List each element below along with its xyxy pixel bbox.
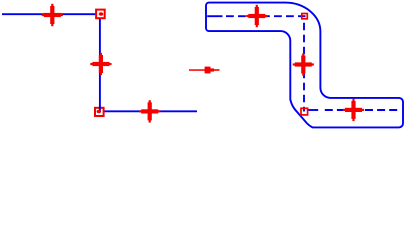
vertex marker square (bottom corner): [95, 108, 104, 116]
wire: original polyline bottom horizontal segment: [100, 110, 197, 112]
centerline dash under cross: [350, 109, 358, 111]
midpoint cross on tube top segment: [246, 5, 267, 27]
midpoint cross on top segment: [42, 4, 63, 26]
midpoint cross on vertical segment: [90, 53, 111, 75]
centerline dashes: bottom horizontal first long dash: [308, 109, 318, 111]
vertex square on tube top corner: [302, 14, 308, 19]
wire: original polyline top horizontal segment: [2, 13, 100, 15]
arrow shaft: [189, 69, 206, 71]
midpoint cross on bottom segment: [139, 100, 160, 122]
wide polyline outline (tube): [206, 3, 403, 128]
arrow head stepped blocks: [205, 67, 211, 74]
wire: original polyline vertical segment: [99, 14, 101, 111]
vertex dot inside top square: [99, 12, 104, 16]
centerline dashes: top horizontal first long dash: [207, 15, 222, 17]
vertex marker square (top corner): [96, 10, 105, 19]
vertex dot inside bottom square: [97, 110, 102, 114]
centerline dashes: bottom horizontal right of cross: [365, 109, 400, 111]
centerline dashes: top horizontal: [226, 15, 306, 17]
centerline dashes: bottom horizontal left of cross: [325, 109, 345, 111]
midpoint cross on tube vertical segment: [293, 53, 314, 75]
wire stub entering bottom square: [99, 106, 101, 111]
centerline dashes: vertical: [303, 23, 305, 112]
vertex square on tube bottom corner: [301, 108, 308, 115]
midpoint cross on tube bottom segment: [343, 99, 364, 121]
